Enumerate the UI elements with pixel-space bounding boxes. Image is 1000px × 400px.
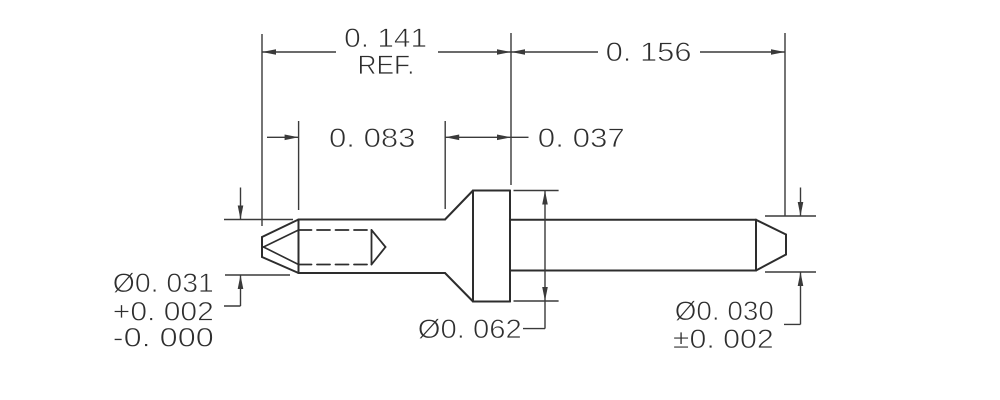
arrowhead dia 0.062 down: [542, 287, 548, 301]
hidden hole bottom (dashed): [299, 264, 372, 266]
arrowhead dia 0.031 up: [238, 275, 244, 289]
dia 0.062 top extension: [514, 190, 559, 192]
dia 0.030 leader stub: [784, 323, 801, 325]
dim 0.156 left line: [511, 51, 598, 53]
left tip bottom chamfer: [262, 257, 299, 273]
right tip top chamfer: [756, 220, 786, 235]
dia 0.031 leader stub: [224, 305, 241, 307]
dim 0.037 line: [445, 136, 511, 138]
left tip flat end: [261, 237, 263, 257]
cone-flange junction edge: [472, 191, 474, 302]
flare cone top: [445, 191, 473, 220]
dia 0.031 upper arrow line: [240, 188, 242, 220]
dia 0.062 leader stub: [523, 328, 545, 330]
arrowhead dia 0.030 down: [798, 202, 804, 216]
hidden hole top (dashed): [299, 229, 372, 231]
arrowhead 0.037 right (points right): [497, 135, 511, 141]
shaft-tip junction edge: [755, 220, 757, 271]
hole cone top: [372, 230, 386, 247]
svg-text:0. 083: 0. 083: [329, 123, 416, 153]
svg-text:Ø0. 062: Ø0. 062: [418, 314, 522, 344]
dia 0.030 lower arrow line: [800, 272, 802, 324]
dim 0.156 right line: [700, 51, 785, 53]
extension line at chamfer junction x=298.6: [298, 121, 300, 210]
flange right edge: [509, 191, 511, 302]
arrowhead 0.141 left: [262, 49, 276, 55]
body top edge: [299, 219, 446, 221]
flange top edge: [473, 190, 510, 192]
svg-text:0. 141: 0. 141: [344, 23, 427, 53]
dim 0.141 left line: [262, 51, 336, 53]
svg-text:-0. 000: -0. 000: [113, 323, 214, 353]
right tip flat end: [785, 235, 787, 255]
arrowhead 0.156 left: [511, 49, 525, 55]
dia 0.031 bottom extension: [225, 274, 290, 276]
dia 0.030 bottom extension: [765, 271, 816, 273]
left tip top chamfer: [262, 220, 299, 238]
hole bottom edge: [371, 230, 373, 265]
svg-text:0. 156: 0. 156: [606, 37, 692, 67]
arrowhead 0.156 right: [771, 49, 785, 55]
dia 0.030 top extension: [765, 215, 816, 217]
dia 0.062 vertical dim line: [544, 191, 546, 329]
svg-text:0. 037: 0. 037: [538, 123, 625, 153]
dia 0.062 bottom extension: [514, 300, 559, 302]
tip inner cone top: [264, 230, 299, 247]
flare cone bottom: [445, 273, 473, 302]
extension line at flange right x=511: [510, 33, 512, 185]
arrowhead 0.037 left (points left): [445, 135, 459, 141]
svg-text:±0. 002: ±0. 002: [673, 324, 774, 354]
body bottom edge: [299, 272, 446, 274]
extension line at cone start x=445.2: [444, 121, 446, 209]
dim 0.141 right line: [438, 51, 511, 53]
tip-body junction edge: [298, 220, 300, 274]
svg-text:REF.: REF.: [358, 50, 415, 80]
extension line at right tip x=785: [784, 33, 786, 216]
arrowhead dia 0.062 up: [542, 191, 548, 205]
shaft bottom edge: [510, 270, 756, 272]
dim 0.083 outside arrow line: [267, 136, 299, 138]
arrowhead 0.083 left (points right): [285, 135, 299, 141]
svg-text:Ø0. 031: Ø0. 031: [113, 268, 214, 298]
dia 0.031 top extension: [224, 219, 293, 221]
extension line at pin tip x=262: [261, 34, 263, 226]
arrowhead dia 0.031 down: [238, 206, 244, 220]
dim 0.037 stub to text: [511, 136, 529, 138]
svg-text:Ø0. 030: Ø0. 030: [675, 296, 774, 326]
tip inner cone bottom: [264, 247, 299, 265]
arrowhead dia 0.030 up: [798, 272, 804, 286]
hole cone bottom: [372, 247, 386, 265]
flange bottom edge: [473, 301, 510, 303]
dia 0.030 upper arrow line: [800, 188, 802, 217]
right tip bottom chamfer: [756, 255, 786, 271]
arrowhead 0.141 right: [497, 49, 511, 55]
shaft top edge: [510, 219, 756, 221]
dia 0.031 lower arrow line: [240, 275, 242, 306]
